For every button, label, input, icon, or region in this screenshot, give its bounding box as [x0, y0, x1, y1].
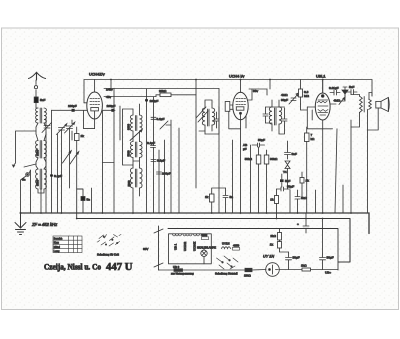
wire x352 drop — [350, 120, 352, 213]
svg-text:UCH4Z: UCH4Z — [193, 241, 197, 251]
IF1 core1 — [135, 116, 136, 131]
heater winding bumps — [173, 234, 200, 236]
IF2 wires — [205, 100, 212, 134]
coil L1 core — [40, 108, 42, 123]
wire x306 — [305, 213, 307, 220]
antenna insulator circle — [34, 86, 37, 89]
svg-text:UCH4 I/v: UCH4 I/v — [229, 75, 245, 79]
capacitor 100pF mid — [151, 160, 156, 162]
svg-text:1k: 1k — [205, 195, 209, 199]
svg-text:Bereich: Bereich — [54, 237, 63, 240]
tube U3 leads — [307, 80, 336, 108]
IF2 coil a — [202, 108, 205, 125]
svg-text:Kurz: Kurz — [54, 242, 60, 245]
IF1 mid links — [133, 131, 140, 165]
IF3 caps — [263, 107, 287, 126]
wire R8 — [276, 189, 278, 219]
wire drop x195 — [195, 80, 197, 189]
IF3 core — [275, 108, 277, 125]
oscillator grid box — [225, 102, 230, 112]
wire IF2 bottom link — [205, 107, 219, 134]
coil L2 core — [40, 141, 42, 159]
pot arrow tube3 — [339, 97, 345, 104]
svg-text:45v: 45v — [106, 95, 111, 99]
capacitor 0.1uF — [151, 146, 156, 148]
capacitor plus50 — [303, 220, 309, 233]
svg-text:4MΩ: 4MΩ — [334, 99, 341, 103]
svg-text:90v: 90v — [253, 89, 258, 93]
wire R7 — [306, 127, 308, 213]
svg-text:20kΩ: 20kΩ — [159, 89, 167, 93]
svg-text:+: + — [297, 222, 299, 226]
wire x297 — [297, 190, 299, 213]
svg-text:UCH42: UCH42 — [183, 241, 187, 251]
IF1 tops and bottoms — [133, 104, 140, 213]
svg-text:T4: T4 — [283, 170, 287, 174]
svg-text:100pF: 100pF — [162, 172, 171, 176]
tube U1 UCH4Z envelope — [87, 92, 103, 119]
junction dots top bus — [110, 79, 112, 81]
bottom power line — [159, 269, 339, 272]
svg-text:1k: 1k — [270, 198, 274, 202]
resistor R3 vert — [210, 194, 215, 202]
svg-text:UB+: UB+ — [325, 271, 331, 275]
IF1 coil pair3 b — [140, 168, 143, 188]
IF3 wires — [266, 100, 285, 134]
trimmer cap C2 — [65, 122, 75, 133]
wire tube3 bottom pins — [301, 104, 338, 213]
antenna — [29, 72, 46, 80]
grid cap component — [81, 197, 85, 201]
wire R6 — [300, 80, 302, 105]
capacitor small mid2 — [157, 172, 162, 174]
wire coil links — [36, 123, 46, 213]
svg-text:5nF: 5nF — [292, 152, 297, 156]
svg-text:50μF: 50μF — [327, 256, 334, 260]
svg-text:30kΩ: 30kΩ — [270, 157, 278, 161]
svg-text:4650: 4650 — [233, 243, 240, 247]
wire x322 vertical — [322, 219, 324, 255]
capacitor 0.1uF upper — [151, 117, 156, 119]
tube U2 anode — [236, 107, 244, 110]
resistor above rectifier a — [278, 233, 282, 241]
bus 3 — [168, 229, 338, 271]
wire x30 drop — [29, 170, 30, 213]
svg-text:60V: 60V — [143, 247, 148, 251]
wire x270 top — [269, 80, 271, 90]
svg-text:1k: 1k — [306, 179, 310, 183]
svg-text:5000: 5000 — [127, 150, 131, 156]
wire x77 drop — [76, 127, 78, 189]
svg-text:UBL1: UBL1 — [316, 75, 326, 79]
wire x164 drop — [164, 140, 166, 213]
svg-text:UCH4Z/v: UCH4Z/v — [89, 73, 105, 77]
svg-text:0.1μF: 0.1μF — [54, 174, 62, 178]
switch detail sketch — [98, 235, 122, 247]
svg-text:50pF: 50pF — [258, 138, 265, 142]
svg-text:SKALENLAMPE: SKALENLAMPE — [197, 246, 216, 250]
coil L3 core — [40, 169, 42, 189]
coil L1 aerial — [36, 108, 38, 123]
wire x52 drop — [51, 110, 53, 213]
svg-text:30pF: 30pF — [281, 98, 288, 102]
tube U3 anode — [318, 113, 328, 116]
svg-text:3000: 3000 — [35, 150, 39, 156]
svg-text:Schaltung Netzteil: Schaltung Netzteil — [215, 272, 238, 276]
resistor R6 0.3M — [299, 89, 303, 97]
svg-text:5n: 5n — [22, 178, 26, 182]
resistor 180 before rectifier — [245, 268, 252, 271]
capacitor 50uF a — [286, 252, 292, 270]
tube U2 UCH4 envelope — [233, 92, 248, 120]
resistor 180 after — [302, 268, 311, 271]
svg-text:5nF: 5nF — [349, 85, 354, 89]
svg-text:1k: 1k — [81, 134, 85, 138]
capacitor 100uF right — [277, 187, 291, 191]
svg-text:MΩ: MΩ — [304, 94, 310, 98]
svg-text:Mittel: Mittel — [54, 246, 60, 249]
tube U3 UBL1 envelope — [315, 93, 330, 120]
IF3 coil b — [279, 107, 282, 124]
tube U1 cathode lead — [94, 80, 96, 120]
wire x146 drop with 100uF — [146, 89, 148, 213]
svg-text:145v: 145v — [106, 88, 113, 92]
resistor R1 1kO — [75, 134, 80, 141]
rectifier tube UY1N — [266, 263, 280, 277]
wire y162 link — [103, 162, 115, 164]
IF1 coil pair2 a — [130, 142, 133, 158]
wire 45v line — [104, 96, 156, 98]
wire left column — [13, 131, 37, 167]
capacitor 50uF b — [320, 254, 326, 270]
coil L3 — [36, 169, 38, 189]
dot component left — [26, 173, 30, 177]
IF1 coil pair2 b — [140, 142, 143, 158]
wire x20 drop — [21, 176, 27, 213]
tube U2 leads — [229, 89, 252, 129]
capacitor 5nF — [285, 146, 291, 159]
svg-text:Lang: Lang — [54, 250, 60, 253]
resistor R4 vert — [256, 155, 261, 164]
svg-text:kΩ: kΩ — [311, 137, 316, 141]
IF2 trimmer arrows — [196, 107, 208, 122]
svg-text:4650: 4650 — [201, 233, 208, 237]
svg-text:Schaltung für Drft: Schaltung für Drft — [97, 253, 119, 257]
wire drop x111 — [110, 80, 112, 89]
wire 145v line — [104, 88, 219, 90]
IF1 core3 — [135, 169, 136, 187]
IF1 coil pair3 a — [130, 168, 133, 188]
resistor above rectifier b — [278, 242, 282, 249]
svg-text:1kΩ: 1kΩ — [301, 264, 307, 268]
ground — [15, 213, 26, 235]
speaker — [376, 101, 381, 108]
wire R2 to x196 — [156, 95, 196, 97]
resistor heater top — [202, 237, 209, 240]
capacitor near R3 — [223, 188, 228, 213]
svg-text:3000: 3000 — [127, 124, 131, 130]
IF1 trimmer arrow — [130, 129, 142, 140]
svg-text:180Ω: 180Ω — [244, 274, 251, 278]
power switch line — [154, 226, 163, 270]
IF2 cap right — [214, 112, 219, 128]
svg-text:ZF = 452 kHz: ZF = 452 kHz — [31, 222, 58, 227]
antenna fuse 5nF — [34, 97, 38, 103]
main bus bottom — [21, 213, 370, 234]
wire x114 drop — [113, 89, 115, 214]
capacitor 5nF out — [347, 90, 357, 95]
wire x179 drop — [178, 128, 180, 213]
IF1 coil pair1 b — [140, 115, 143, 131]
wire x46 drop — [45, 118, 47, 213]
svg-text:5nF: 5nF — [285, 179, 290, 183]
svg-text:0.1μF: 0.1μF — [157, 117, 165, 121]
resistor R5 vert — [264, 155, 269, 164]
wire drop to tube2 top — [240, 80, 242, 93]
IF2 coil b — [212, 108, 215, 125]
heater box — [169, 234, 212, 264]
svg-text:3000: 3000 — [35, 180, 39, 186]
tube U3 cap dot — [321, 95, 324, 98]
jack T4 — [285, 161, 290, 169]
capacitor 100pF tube1 left — [72, 109, 75, 112]
wire x290 — [289, 190, 291, 213]
tube U3 grids — [317, 100, 328, 111]
resistor R2 20k — [160, 93, 171, 97]
svg-text:5nF: 5nF — [40, 98, 45, 102]
wire speaker — [368, 108, 379, 130]
svg-text:50μF: 50μF — [287, 185, 294, 189]
IF2 core — [208, 109, 210, 126]
wire 90v line — [249, 89, 267, 95]
svg-text:100pF: 100pF — [68, 104, 77, 108]
wire R4 R5 — [259, 147, 267, 213]
svg-text:4MΩ: 4MΩ — [281, 93, 288, 97]
tube U1 grid bars — [90, 99, 100, 105]
output transformer winding a — [360, 96, 363, 112]
wire x153 drop — [153, 97, 155, 213]
wire x199 — [199, 130, 205, 132]
bus 2 — [77, 219, 350, 263]
wire x159 drop — [158, 150, 160, 213]
svg-text:5n: 5n — [87, 198, 91, 202]
svg-text:UB 0: UB 0 — [173, 265, 180, 269]
capacitor 50pF h — [252, 143, 265, 147]
resistor R8 — [275, 196, 279, 204]
wire R3 — [212, 188, 226, 213]
wire x66 drop — [62, 129, 70, 214]
wire drop to tube3 top — [322, 80, 324, 93]
wire x287 drop — [287, 141, 289, 189]
svg-text:UY1N: UY1N — [222, 242, 229, 246]
wire x80 drop — [77, 189, 83, 219]
svg-text:1k: 1k — [270, 243, 274, 247]
svg-text:UY 1N: UY 1N — [263, 255, 274, 259]
component 75k — [295, 197, 300, 200]
tube U1 anode box — [91, 108, 99, 111]
resistor 1k right — [300, 178, 304, 184]
IF1 coil pair1 a — [130, 115, 133, 131]
svg-text:447 U: 447 U — [106, 261, 133, 273]
trimmer cap C1 — [57, 124, 67, 135]
wire tube2 pins — [233, 114, 251, 213]
wire tube1 pins down — [52, 110, 103, 213]
wire top bus — [84, 80, 372, 103]
power switch contacts — [217, 256, 239, 269]
wire x58 drop — [57, 134, 59, 213]
output transformer core — [363, 97, 365, 113]
svg-text:100μF: 100μF — [150, 99, 159, 103]
IF1 core2 — [135, 142, 136, 157]
svg-text:UB 1: UB 1 — [174, 243, 178, 250]
wire x92 drop — [91, 188, 93, 213]
svg-text:zur Netzspannung: zur Netzspannung — [171, 272, 194, 276]
tube U2 grids — [236, 99, 246, 105]
svg-text:0.1μF: 0.1μF — [157, 159, 165, 163]
capacitor 100uF tube1 right — [102, 109, 115, 111]
wire x120 drop — [119, 106, 121, 140]
antenna lead wire — [36, 80, 38, 108]
trimmer arrows lower pair — [63, 151, 79, 164]
junction dots bottom bus — [20, 212, 22, 214]
svg-text:0.01μF: 0.01μF — [329, 86, 339, 90]
resistor R7 7k — [305, 133, 310, 142]
wire x345 drop — [337, 94, 345, 213]
wire drop x219 — [218, 89, 220, 214]
diode D1 — [343, 87, 347, 97]
output transformer winding b — [369, 99, 372, 109]
wire transformer tops — [351, 93, 372, 214]
capacitor 0.01uF top — [330, 90, 340, 95]
alignment table — [53, 236, 82, 253]
svg-text:50kΩ: 50kΩ — [245, 157, 253, 161]
switch arrow mid — [160, 121, 171, 129]
svg-text:50μF: 50μF — [293, 256, 300, 260]
wire x72 drop — [71, 120, 73, 140]
svg-text:μF: μF — [243, 147, 247, 151]
coil L2 — [36, 141, 38, 158]
trimmer cap C3 — [42, 123, 52, 133]
wire x86 tube1 left — [84, 102, 87, 104]
cap dot 0.1 — [50, 174, 52, 176]
capacitor 5nF small — [281, 174, 283, 187]
svg-text:2kΩ: 2kΩ — [270, 234, 276, 238]
IF3 coil a — [269, 107, 272, 124]
svg-text:5000: 5000 — [127, 180, 131, 186]
svg-text:Czeija, Nissl u. Co: Czeija, Nissl u. Co — [44, 263, 101, 272]
wire rect resistors — [280, 229, 289, 253]
wire x171 drop — [170, 120, 172, 213]
IF1 bracket — [123, 109, 134, 165]
